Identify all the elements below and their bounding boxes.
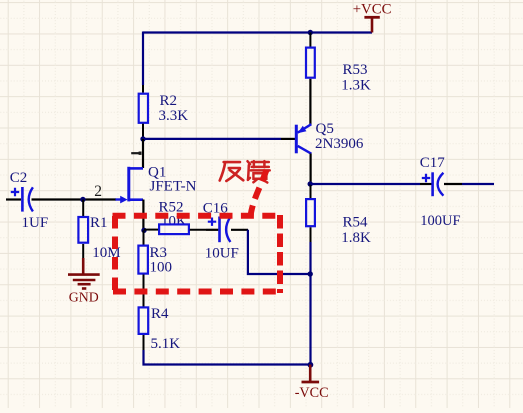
svg-text:C17: C17 xyxy=(420,155,446,171)
capacitor C2 xyxy=(6,187,33,212)
svg-text:JFET-N: JFET-N xyxy=(150,178,197,194)
node source/R52/R3 junction xyxy=(141,228,146,233)
svg-text:100UF: 100UF xyxy=(420,213,460,229)
resistor R2 xyxy=(139,85,148,139)
svg-text:1.3K: 1.3K xyxy=(341,78,371,94)
annotation dashed box left xyxy=(112,216,118,291)
svg-text:+VCC: +VCC xyxy=(353,2,392,18)
wire C16 to R54 bottom node xyxy=(248,230,310,274)
pin Q1 source down xyxy=(142,200,144,231)
svg-text:2: 2 xyxy=(94,183,102,200)
annotation dashed box right xyxy=(277,215,283,293)
capacitor C16 xyxy=(206,217,248,243)
wire base rail to Q5 xyxy=(143,138,281,140)
svg-text:100: 100 xyxy=(150,260,173,276)
svg-text:GND: GND xyxy=(69,290,99,305)
svg-text:R53: R53 xyxy=(343,62,368,78)
annotation dashed box top xyxy=(113,213,282,219)
resistor R1 xyxy=(78,200,88,259)
node C16 feedback junction xyxy=(308,271,313,276)
wire R54 down to -VCC node xyxy=(309,242,311,365)
resistor R54 xyxy=(306,184,315,242)
node bottom -VCC junction xyxy=(308,362,314,368)
svg-text:-VCC: -VCC xyxy=(295,385,329,401)
svg-text:R1: R1 xyxy=(90,215,108,231)
svg-text:R2: R2 xyxy=(160,93,178,109)
annotation dashed box bottom xyxy=(113,289,283,295)
wire output rail to C17 xyxy=(310,183,420,185)
capacitor C17 xyxy=(420,172,462,196)
svg-text:1.8K: 1.8K xyxy=(341,230,371,246)
svg-text:2N3906: 2N3906 xyxy=(315,136,364,152)
wire top rail from R2 top to +VCC stem xyxy=(143,31,372,33)
svg-text:R4: R4 xyxy=(151,306,169,322)
power +VCC xyxy=(353,2,392,33)
svg-text:R54: R54 xyxy=(343,215,369,231)
transistor Q5 2N3906 xyxy=(296,124,311,154)
wire bottom rail R4 to -VCC node xyxy=(144,350,311,365)
resistor R52 xyxy=(144,224,206,234)
annotation leader dashes xyxy=(251,170,267,216)
pin Q5 collector down xyxy=(310,154,312,185)
node junction top rail / R53 xyxy=(308,30,313,35)
svg-text:3.3K: 3.3K xyxy=(159,108,189,124)
wire gate rail C2 to Q1 gate xyxy=(32,198,116,200)
resistor R53 xyxy=(306,33,315,125)
wire output end xyxy=(462,183,494,185)
pin Q1 drain xyxy=(142,139,144,168)
wire left vertical down to R2 xyxy=(142,32,144,86)
ground GND xyxy=(68,258,100,305)
node gate/R1 junction xyxy=(80,197,85,202)
annotation text 反馈 (feedback) drawn as strokes xyxy=(220,161,270,182)
svg-text:Q5: Q5 xyxy=(316,121,334,137)
node R2/Q1-drain/Q5-base junction xyxy=(140,136,145,141)
resistor R4 xyxy=(139,307,149,350)
transistor Q1 JFET-N xyxy=(115,167,143,204)
svg-text:10UF: 10UF xyxy=(205,246,239,262)
pin number 1 (Q1 drain, rotated) xyxy=(131,152,141,155)
svg-text:5.1K: 5.1K xyxy=(151,336,181,352)
node collector/R54/output junction xyxy=(308,181,313,186)
svg-text:1UF: 1UF xyxy=(22,215,49,231)
svg-text:C2: C2 xyxy=(10,170,28,186)
pin Q5 base xyxy=(281,138,295,140)
resistor R3 xyxy=(138,230,148,306)
power -VCC xyxy=(295,365,329,401)
